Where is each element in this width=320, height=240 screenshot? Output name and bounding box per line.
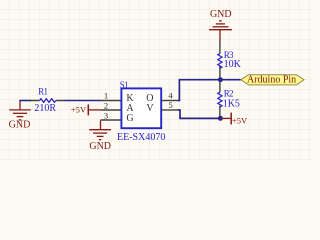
node A junction dot xyxy=(218,77,223,82)
svg-text:10K: 10K xyxy=(224,59,242,70)
svg-text:S1: S1 xyxy=(120,80,128,90)
wire S1 pin 5 down and right to node B xyxy=(178,110,221,118)
node B junction dot xyxy=(218,116,223,121)
R1 leads xyxy=(30,100,65,102)
svg-text:R2: R2 xyxy=(224,89,233,99)
+5V lead from node B xyxy=(221,117,231,119)
svg-text:1: 1 xyxy=(104,91,108,101)
wire S1 pin 4 up and right to node A xyxy=(178,80,241,101)
body xyxy=(121,88,161,128)
ground GND2 (below S1 pin 3) xyxy=(89,120,111,152)
R3 zigzag body xyxy=(218,53,222,68)
ground stem xyxy=(100,120,102,129)
port Arduino Pin xyxy=(241,75,304,86)
+5V bar xyxy=(87,104,89,115)
power +5V (left bar) xyxy=(71,104,101,115)
ground bars xyxy=(9,109,31,111)
svg-text:210R: 210R xyxy=(34,103,56,114)
+5V lead to pin 2 xyxy=(88,109,100,111)
svg-text:+5V: +5V xyxy=(71,105,87,115)
svg-text:5: 5 xyxy=(168,100,172,110)
ground stem xyxy=(19,101,21,110)
ground GND3 (top right, pointing up) xyxy=(209,9,232,39)
power +5V (bottom right bar) xyxy=(221,113,248,126)
R3 leads xyxy=(219,39,221,79)
ground bars xyxy=(89,130,111,140)
svg-text:G: G xyxy=(126,113,133,124)
resistor R2 xyxy=(218,82,240,117)
R2 zigzag body xyxy=(218,92,222,107)
+5V bar xyxy=(230,113,232,125)
pin 1 xyxy=(101,100,121,102)
wire GND1 to R1 xyxy=(19,100,31,102)
pin 5 xyxy=(162,109,178,111)
ground bars xyxy=(209,21,232,30)
port outline xyxy=(241,75,304,85)
resistor R3 xyxy=(218,39,242,79)
svg-text:Arduino Pin: Arduino Pin xyxy=(247,75,296,86)
svg-text:2: 2 xyxy=(104,100,108,110)
pin 4 xyxy=(162,100,178,102)
pin 3 xyxy=(101,119,121,121)
svg-text:EE-SX4070: EE-SX4070 xyxy=(117,132,165,143)
ground stem xyxy=(219,30,221,39)
resistor R1 xyxy=(30,87,65,115)
svg-text:GND: GND xyxy=(9,119,31,130)
pin 2 xyxy=(101,109,121,111)
R1 zigzag body xyxy=(40,99,56,103)
ground GND1 (far left power ground) xyxy=(9,101,31,120)
svg-text:R1: R1 xyxy=(38,87,47,97)
svg-text:GND: GND xyxy=(89,141,111,152)
svg-text:3: 3 xyxy=(104,110,108,120)
R2 leads xyxy=(219,82,221,117)
wire R1 to S1 pin 1 xyxy=(65,100,101,102)
svg-text:+5V: +5V xyxy=(232,116,248,126)
svg-text:V: V xyxy=(146,103,154,114)
svg-text:1K5: 1K5 xyxy=(223,99,240,110)
svg-text:4: 4 xyxy=(168,90,173,100)
component S1 EE-SX4070 xyxy=(101,80,178,143)
svg-text:GND: GND xyxy=(210,9,232,20)
